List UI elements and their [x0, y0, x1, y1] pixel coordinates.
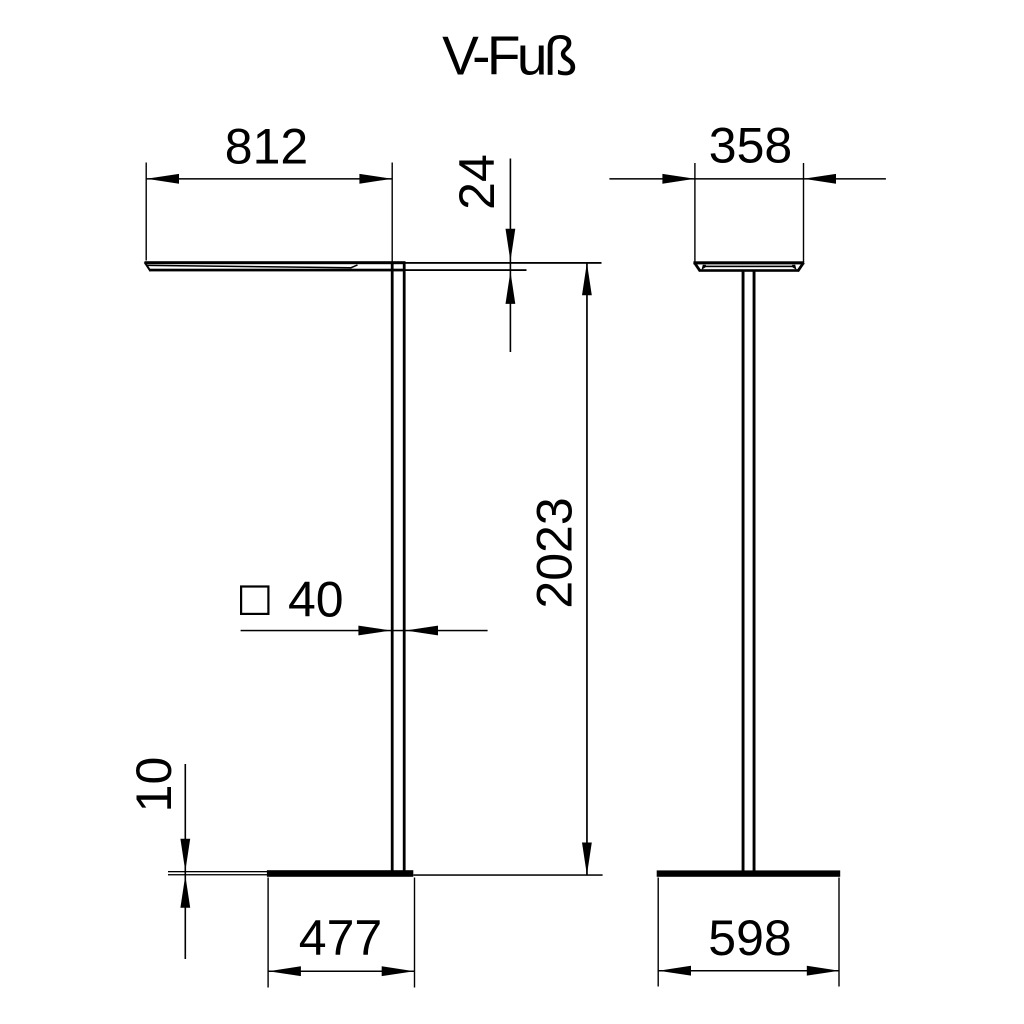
lamp head side view: top edge — [693, 261, 804, 264]
base plate front view — [267, 870, 413, 877]
dimension 598: left arrowhead — [659, 966, 692, 976]
pole side view: left edge — [742, 271, 745, 872]
dimension 598: dimension line — [658, 970, 839, 972]
dimension 812: right arrowhead — [359, 174, 392, 184]
dimension square-40: right arrowhead pointing left — [406, 626, 439, 636]
dimension 477: dimension line — [268, 971, 414, 973]
pole side view: right edge — [753, 271, 756, 872]
dimension 477: right arrowhead — [382, 966, 415, 976]
lamp head front view: bottom edge extension line — [406, 269, 527, 271]
dimension 24: lower arrowhead pointing up — [506, 271, 516, 304]
lamp head front view: top edge — [145, 261, 406, 264]
lamp head side view: inner fold line — [705, 266, 794, 268]
dimension square-40: square symbol — [241, 587, 268, 614]
dimension 812: right extension line — [392, 163, 393, 262]
dimension 477: left extension line — [267, 878, 268, 988]
lamp head side view: left bevel — [694, 263, 700, 272]
dimension 358: left arrowhead pointing right (outside) — [662, 174, 695, 184]
dimension 358: dimension line — [609, 178, 886, 180]
dimension 2023: bottom arrowhead pointing down — [582, 843, 592, 876]
dimension 477: right extension line — [414, 878, 415, 988]
dimension 24: dimension line (vertical) — [510, 159, 512, 353]
lamp head front view: inner fold line with kink — [148, 265, 358, 268]
svg-text:2023: 2023 — [527, 497, 583, 608]
lamp head front view: bottom edge — [150, 269, 406, 272]
dimension 598: left extension line — [658, 878, 659, 987]
svg-text:477: 477 — [299, 910, 382, 966]
svg-text:812: 812 — [225, 119, 308, 175]
dimension 812: left arrowhead — [147, 174, 180, 184]
pole front view: right edge — [403, 262, 406, 872]
dimension 10: lower arrowhead pointing up — [180, 875, 190, 908]
svg-text:10: 10 — [126, 757, 182, 813]
dimension 598: right arrowhead — [807, 966, 840, 976]
dimension 358: right arrowhead pointing left (outside) — [804, 174, 837, 184]
lamp head side view: bottom edge — [699, 269, 799, 272]
svg-text:24: 24 — [449, 154, 505, 210]
base plate side view — [657, 870, 841, 876]
dimension 2023: top arrowhead pointing up — [582, 263, 592, 296]
dimension 10: upper arrowhead pointing down — [180, 839, 190, 872]
dimension 812: dimension line — [146, 178, 392, 180]
dimension 10: dimension line (vertical) — [185, 764, 187, 959]
svg-text:598: 598 — [708, 910, 791, 966]
dimension 598: right extension line — [838, 878, 839, 987]
lamp head side view: left corner fold triangle — [702, 265, 707, 270]
lamp head front view: left bevel — [145, 262, 151, 271]
dimension square-40: dimension line — [241, 630, 488, 632]
svg-text:40: 40 — [288, 572, 344, 628]
svg-text:358: 358 — [709, 118, 792, 174]
lamp head side view: right bevel — [798, 263, 804, 272]
pole front view: left edge — [391, 262, 394, 872]
lamp head front view: top edge extension line — [406, 262, 602, 264]
dimension 2023: dimension line (vertical) — [586, 263, 588, 875]
svg-text:V-Fuß: V-Fuß — [442, 25, 576, 87]
lamp head side view: right corner fold triangle — [792, 265, 797, 270]
base plate bottom surface extension line (left) — [168, 874, 267, 875]
dimension 477: left arrowhead — [268, 966, 301, 976]
dimension 812: left extension line — [146, 163, 147, 261]
dimension 358: left extension line — [694, 163, 695, 262]
dimension 24: upper arrowhead pointing down — [506, 229, 516, 262]
base plate top surface extension line (left) — [168, 871, 267, 872]
dimension 358: right extension line — [803, 163, 804, 262]
ground line (right of base, extension for 2023) — [413, 874, 602, 876]
dimension square-40: left arrowhead pointing right — [358, 626, 391, 636]
